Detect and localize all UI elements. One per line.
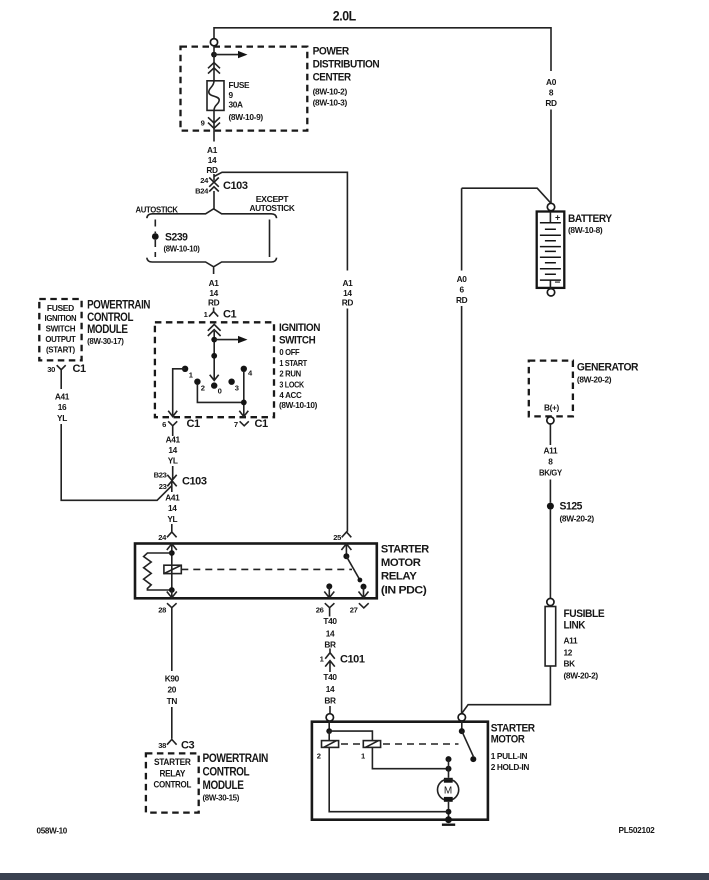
svg-text:K90: K90 (165, 674, 180, 684)
svg-text:2: 2 (201, 384, 205, 393)
wire contact 4 down (239, 371, 248, 417)
motor brush bottom (444, 797, 453, 802)
connector relay pin 28 (167, 603, 177, 611)
node contact 0 (211, 382, 217, 388)
node battery negative terminal (547, 289, 554, 296)
svg-text:RD: RD (456, 295, 468, 305)
svg-text:6: 6 (162, 420, 166, 429)
wire to winding 1 (329, 731, 372, 741)
svg-text:−: − (555, 278, 561, 289)
svg-text:16: 16 (58, 402, 67, 412)
wire A0 6 RD down to starter (461, 306, 463, 714)
wire relay coil feed interior (167, 544, 177, 591)
svg-text:T40: T40 (323, 616, 337, 626)
starter motor relay box (135, 544, 377, 599)
svg-text:IGNITION: IGNITION (45, 313, 77, 323)
fuse F9 30A (207, 81, 224, 111)
wire fusible link to starter (462, 666, 551, 713)
node motor return junction (446, 809, 452, 815)
wire arrow to accessory circuits (214, 339, 238, 341)
svg-text:GENERATOR: GENERATOR (577, 361, 639, 373)
svg-text:S239: S239 (165, 232, 188, 244)
connector C3 pin 38 (167, 739, 177, 744)
node junction under contact 4 (241, 400, 247, 406)
svg-text:LINK: LINK (564, 620, 586, 632)
svg-text:(8W-10-10): (8W-10-10) (279, 400, 318, 410)
wire autostick branch dashed lower (154, 240, 156, 257)
svg-text:C3: C3 (181, 740, 194, 752)
svg-text:POWERTRAIN: POWERTRAIN (203, 751, 269, 765)
svg-text:BR: BR (324, 640, 336, 650)
svg-text:STARTER: STARTER (381, 544, 429, 556)
svg-text:14: 14 (209, 288, 218, 298)
svg-text:RD: RD (342, 298, 354, 308)
svg-text:6: 6 (459, 285, 464, 295)
svg-text:8: 8 (549, 88, 554, 98)
svg-text:1 PULL-IN: 1 PULL-IN (491, 751, 528, 761)
svg-text:(8W-30-17): (8W-30-17) (87, 336, 124, 346)
svg-text:2: 2 (317, 752, 321, 761)
wire fuse exit (213, 110, 215, 130)
svg-text:24: 24 (200, 176, 209, 185)
svg-text:RD: RD (206, 165, 218, 175)
wire below C103 to split (213, 191, 215, 209)
svg-text:A1: A1 (207, 145, 218, 155)
wire PCM start output upper (60, 375, 62, 390)
svg-text:A1: A1 (209, 278, 220, 288)
node relay coil bottom (169, 587, 175, 593)
svg-text:A11: A11 (564, 636, 578, 646)
connector relay pin 27 (359, 603, 369, 608)
svg-text:14: 14 (168, 445, 177, 455)
wire to starter solenoid (329, 706, 331, 714)
svg-text:(8W-10-3): (8W-10-3) (313, 97, 348, 107)
svg-text:AUTOSTICK: AUTOSTICK (250, 203, 295, 213)
node junction dot lower (211, 353, 217, 359)
winding 2 (hold-in) (322, 741, 339, 748)
wire winding 1 to pull-in contact (372, 747, 448, 768)
svg-text:(START): (START) (46, 344, 75, 354)
wire to S125 (549, 480, 551, 503)
wire merge stub dashed (213, 268, 215, 275)
node contact 2 (194, 379, 200, 385)
svg-text:BK: BK (564, 659, 576, 669)
wire between contacts (448, 759, 450, 769)
svg-text:(IN PDC): (IN PDC) (381, 584, 427, 596)
wire except-autostick branch (269, 220, 271, 258)
node split brace top (147, 209, 277, 218)
svg-text:C1: C1 (255, 418, 268, 430)
node relay pin 26 contact (326, 583, 332, 589)
node relay common (343, 553, 349, 559)
relay coil (164, 565, 181, 573)
svg-text:RELAY: RELAY (159, 768, 186, 779)
wire relay pin 25 interior (341, 544, 351, 557)
svg-text:25: 25 (333, 533, 342, 542)
footer bar (0, 873, 709, 880)
svg-text:4 ACC: 4 ACC (279, 390, 301, 400)
wire pin 28 to PCM (171, 612, 173, 672)
motor brush top (444, 778, 453, 783)
svg-text:24: 24 (158, 533, 167, 542)
svg-text:S125: S125 (560, 501, 583, 513)
node starter solenoid terminal (326, 714, 333, 721)
svg-text:(8W-20-2): (8W-20-2) (560, 514, 595, 524)
svg-text:T40: T40 (323, 672, 337, 682)
svg-text:MODULE: MODULE (203, 778, 244, 792)
node junction in PDC (211, 52, 217, 58)
svg-text:CENTER: CENTER (313, 72, 352, 84)
svg-text:FUSED: FUSED (47, 303, 74, 313)
ignition switch box (155, 322, 274, 417)
wire pin6 lower stem (172, 430, 174, 437)
svg-text:RD: RD (545, 98, 557, 108)
wire motor feed (448, 769, 450, 778)
svg-text:SWITCH: SWITCH (46, 324, 76, 334)
svg-text:RD: RD (208, 298, 220, 308)
svg-text:C1: C1 (223, 309, 236, 321)
node solenoid junction (326, 728, 332, 734)
svg-text:28: 28 (158, 606, 166, 615)
wire relay coil to pin 28 (167, 590, 177, 598)
svg-text:YL: YL (57, 413, 67, 423)
svg-text:(8W-20-2): (8W-20-2) (577, 375, 612, 385)
svg-text:AUTOSTICK: AUTOSTICK (135, 204, 178, 214)
node junction dot upper (211, 337, 217, 343)
svg-text:A0: A0 (546, 77, 557, 87)
wire to winding 2 (328, 731, 330, 741)
wire ignition feed stem (213, 331, 215, 379)
svg-text:20: 20 (168, 685, 177, 695)
svg-text:14: 14 (326, 684, 335, 694)
node pull-in contact lower (446, 766, 452, 772)
svg-text:23: 23 (159, 482, 167, 491)
generator box (529, 361, 573, 417)
svg-text:14: 14 (343, 288, 352, 298)
svg-text:(8W-30-15): (8W-30-15) (203, 793, 240, 803)
wire relay pin 26 to C101 (329, 612, 331, 617)
svg-text:7: 7 (234, 420, 238, 429)
svg-text:B(+): B(+) (544, 403, 560, 413)
node relay NO contact (361, 584, 367, 590)
svg-text:12: 12 (564, 648, 573, 658)
svg-text:30A: 30A (229, 100, 244, 110)
wire contact 1 to pin 6 (168, 369, 185, 417)
svg-text:OUTPUT: OUTPUT (45, 334, 75, 344)
power distribution center box (181, 47, 308, 131)
svg-text:(8W-20-2): (8W-20-2) (564, 671, 599, 681)
svg-text:(8W-10-10): (8W-10-10) (164, 244, 201, 254)
svg-text:14: 14 (208, 155, 217, 165)
wire generator output (549, 424, 551, 445)
svg-text:(8W-10-8): (8W-10-8) (568, 225, 603, 235)
battery B1 (537, 212, 565, 288)
node battery positive terminal (547, 203, 554, 210)
svg-text:C1: C1 (73, 363, 86, 375)
svg-text:RELAY: RELAY (381, 571, 418, 583)
wire motor to ground (448, 802, 450, 820)
wire battery feed lower segment (550, 110, 552, 204)
wire PCM start output to C103 (61, 424, 172, 500)
svg-text:2.0L: 2.0L (333, 8, 356, 23)
svg-text:A41: A41 (166, 435, 181, 445)
svg-text:MOTOR: MOTOR (491, 734, 525, 746)
connector relay pin 24 (167, 532, 177, 537)
connector C1 pin 30 (57, 365, 66, 374)
svg-text:CONTROL: CONTROL (203, 765, 250, 779)
svg-text:30: 30 (47, 365, 55, 374)
relay switch blade (346, 556, 360, 580)
wire arrowhead rotor (210, 375, 219, 381)
svg-text:A41: A41 (55, 392, 70, 402)
starter motor box (312, 722, 488, 820)
connector C101 (325, 649, 335, 673)
svg-text:FUSE: FUSE (229, 80, 251, 90)
wire below PDC (213, 131, 215, 142)
connector relay pin 26 (325, 603, 335, 611)
node switch pivot (459, 728, 465, 734)
svg-text:YL: YL (167, 514, 177, 524)
motor M1 (438, 779, 459, 800)
svg-text:C103: C103 (223, 180, 248, 192)
ground (445, 816, 452, 823)
dashed solenoid link (341, 743, 459, 745)
splice S125 (547, 503, 554, 510)
svg-text:C103: C103 (182, 476, 207, 488)
svg-text:B24: B24 (195, 187, 209, 196)
connector C1 pin 6 (168, 421, 177, 429)
wire PDC internal stem (213, 46, 215, 81)
connector entry chevrons inside ignition switch (208, 324, 221, 336)
svg-text:POWER: POWER (313, 46, 350, 58)
resistor parallel (144, 553, 172, 590)
svg-text:B23: B23 (154, 471, 167, 480)
svg-text:FUSIBLE: FUSIBLE (564, 608, 605, 620)
svg-text:MOTOR: MOTOR (381, 557, 421, 569)
svg-text:PL502102: PL502102 (619, 825, 656, 835)
svg-text:TN: TN (167, 696, 178, 706)
svg-text:3 LOCK: 3 LOCK (279, 379, 304, 389)
node PDC top terminal (210, 39, 217, 46)
powertrain control module box (starter relay control) (146, 753, 199, 812)
node starter battery terminal (458, 714, 465, 721)
wire relay pin 26 interior (324, 586, 334, 597)
node relay coil top (169, 550, 175, 556)
node contact 1 (182, 366, 188, 372)
svg-text:0 OFF: 0 OFF (279, 347, 299, 357)
connector relay pin 25 (342, 532, 352, 537)
starter switch blade (462, 731, 474, 756)
svg-text:058W-10: 058W-10 (37, 827, 68, 836)
svg-text:A1: A1 (342, 278, 353, 288)
svg-text:8: 8 (548, 457, 553, 467)
svg-text:38: 38 (158, 741, 166, 750)
svg-text:2 RUN: 2 RUN (279, 369, 301, 379)
svg-text:(8W-10-2): (8W-10-2) (313, 86, 348, 96)
wire to pin 38 (171, 707, 173, 739)
svg-text:BATTERY: BATTERY (568, 213, 613, 225)
svg-text:YL: YL (168, 456, 178, 466)
svg-text:STARTER: STARTER (491, 722, 535, 734)
svg-text:2 HOLD-IN: 2 HOLD-IN (491, 762, 530, 772)
svg-text:9: 9 (229, 90, 234, 100)
wire battery positive tap (462, 188, 551, 270)
wire to relay pin 24 (171, 524, 173, 532)
svg-text:SWITCH: SWITCH (279, 334, 316, 346)
svg-text:0: 0 (218, 387, 222, 396)
svg-text:A0: A0 (457, 274, 468, 284)
svg-text:C1: C1 (187, 418, 200, 430)
node merge brace bottom (147, 258, 277, 267)
svg-text:MODULE: MODULE (87, 322, 128, 336)
svg-text:BK/GY: BK/GY (539, 468, 563, 478)
svg-text:26: 26 (316, 606, 324, 615)
connector C1 pin 1 (209, 308, 218, 317)
connector C103 chevrons (209, 178, 219, 192)
svg-text:9: 9 (201, 119, 205, 128)
node fusible link terminal (547, 598, 554, 605)
svg-text:+: + (555, 213, 560, 223)
svg-text:M: M (444, 786, 452, 797)
node generator output terminal (547, 417, 554, 424)
svg-text:DISTRIBUTION: DISTRIBUTION (313, 58, 380, 70)
winding 1 (pull-in) (363, 741, 380, 748)
wire arrow tap to other circuits (214, 54, 239, 56)
node pull-in contact upper (446, 756, 452, 762)
wire contact 2 to junction (197, 384, 243, 402)
node contact 4 (241, 366, 247, 372)
powertrain control module box (start output) (39, 299, 81, 360)
wire into C103 B23 (172, 466, 174, 480)
dashed actuation link (181, 568, 352, 570)
connector pin 9 chevrons (208, 117, 220, 128)
svg-text:(8W-10-9): (8W-10-9) (229, 112, 264, 122)
wire top feed from PDC to battery (214, 28, 551, 71)
wire into C103 (213, 174, 215, 181)
svg-text:3: 3 (235, 384, 239, 393)
wire relay pin 27 interior (359, 587, 369, 598)
connector C103 (B23/23) (167, 475, 176, 492)
svg-text:BR: BR (324, 696, 336, 706)
svg-text:1 START: 1 START (279, 358, 307, 368)
wire starter switch feed (461, 721, 463, 731)
svg-text:IGNITION: IGNITION (279, 322, 320, 334)
svg-text:STARTER: STARTER (154, 757, 191, 768)
node contact 3 (228, 379, 234, 385)
wire right branch to relay (346, 309, 348, 532)
connector C1 pin 7 (240, 421, 249, 426)
svg-text:A11: A11 (544, 446, 558, 456)
svg-text:14: 14 (326, 629, 335, 639)
wire branch to relay pin 25 (214, 172, 347, 270)
connector chevrons in PDC (208, 63, 220, 74)
fusible link (545, 607, 556, 667)
wire solenoid feed (328, 721, 330, 731)
svg-text:CONTROL: CONTROL (154, 779, 192, 790)
wire winding 2 return (329, 747, 448, 811)
svg-text:A41: A41 (165, 493, 180, 503)
wire autostick branch dashed (154, 220, 156, 234)
svg-text:C101: C101 (340, 654, 365, 666)
wire S125 to fusible link (549, 510, 551, 599)
svg-text:27: 27 (350, 606, 358, 615)
splice S239 (152, 233, 159, 240)
svg-text:14: 14 (168, 503, 177, 513)
